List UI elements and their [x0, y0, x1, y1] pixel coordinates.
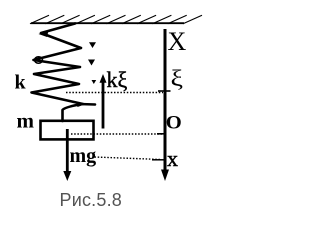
dotted line x level	[95, 157, 162, 160]
marker triangle 3	[92, 80, 97, 84]
weight arrow mg	[66, 129, 69, 172]
marker triangle 1	[89, 42, 96, 48]
spring bottom bar	[79, 103, 95, 106]
svg-text:Рис.5.8: Рис.5.8	[60, 190, 122, 210]
ceiling line	[31, 22, 184, 24]
ceiling hatching	[30, 15, 202, 24]
spring top hook arrowhead	[39, 31, 49, 38]
svg-text:ξ: ξ	[171, 66, 184, 91]
svg-text:k: k	[15, 72, 27, 94]
axis X line	[164, 29, 167, 170]
dotted line O level	[71, 133, 163, 135]
axis arrowhead down	[161, 170, 169, 182]
axis tick x	[152, 159, 166, 161]
svg-text:O: O	[166, 113, 182, 134]
svg-text:m: m	[17, 109, 35, 133]
force arrow k-xi	[102, 80, 105, 129]
svg-text:mg: mg	[70, 145, 97, 167]
axis tick O	[157, 133, 166, 135]
dotted line xi level	[66, 92, 163, 94]
spring end arrowhead	[76, 102, 85, 107]
svg-text:x: x	[167, 146, 178, 171]
spring small loop	[35, 57, 43, 63]
mass block m	[41, 121, 94, 140]
axis tick xi	[158, 90, 171, 92]
svg-text:kξ: kξ	[107, 67, 128, 92]
spring k zigzag	[32, 24, 84, 105]
svg-text:X: X	[168, 27, 187, 56]
spring-to-mass hanger	[63, 105, 80, 122]
marker triangle 2	[88, 60, 95, 66]
